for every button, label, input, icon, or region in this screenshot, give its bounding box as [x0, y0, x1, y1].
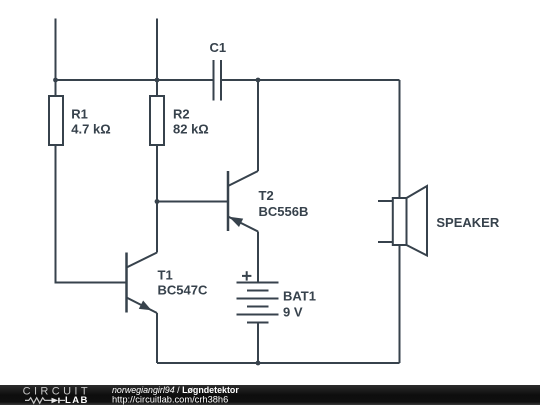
svg-text:T2: T2: [259, 188, 274, 203]
svg-text:http://circuitlab.com/crh38h6: http://circuitlab.com/crh38h6: [112, 395, 228, 405]
wire R2 top lead: [156, 80, 158, 97]
wire T1 emitter to bottom bus: [156, 313, 158, 363]
svg-text:R2: R2: [173, 107, 190, 122]
svg-text:norwegiangirl94 / Løgndetektor: norwegiangirl94 / Løgndetektor: [112, 385, 239, 395]
svg-text:C1: C1: [210, 40, 227, 55]
svg-text:SPEAKER: SPEAKER: [436, 215, 499, 230]
svg-text:BC556B: BC556B: [259, 204, 309, 219]
wire middle antenna stub: [156, 19, 158, 81]
wire battery minus to bottom bus: [257, 323, 259, 364]
svg-text:9 V: 9 V: [283, 305, 303, 320]
svg-text:4.7 kΩ: 4.7 kΩ: [71, 122, 110, 137]
node top bus / T2 collector junction: [256, 78, 261, 83]
speaker symbol: [378, 186, 427, 256]
transistor T2 (PNP BC556B): [228, 171, 258, 232]
wire T2 emitter to battery plus: [257, 232, 259, 283]
wire R2 bottom lead to T1 collector: [156, 145, 158, 253]
resistor R2: [150, 96, 164, 145]
battery plus sign: [242, 271, 251, 280]
resistor R1: [49, 96, 63, 145]
CircuitLab logo diode: [52, 398, 59, 404]
wire bottom bus: [157, 362, 400, 364]
wire top bus left of C1: [56, 79, 214, 81]
svg-text:BC547C: BC547C: [158, 283, 208, 298]
node R2 / T2 base junction: [155, 199, 160, 204]
wire left antenna stub: [55, 19, 57, 81]
svg-text:R1: R1: [71, 107, 88, 122]
wire speaker bottom branch: [399, 245, 401, 363]
wire R1 bottom lead to T1 base corner: [56, 145, 127, 283]
svg-text:BAT1: BAT1: [283, 288, 316, 303]
svg-text:82 kΩ: 82 kΩ: [173, 122, 209, 137]
wire R1 top lead: [55, 80, 57, 97]
transistor T1 (NPN BC547C): [127, 253, 158, 314]
wire T2 base from node: [157, 201, 227, 203]
capacitor C1: [214, 60, 222, 101]
wire speaker top branch: [399, 80, 401, 198]
footer bar: [0, 385, 540, 405]
svg-text:LAB: LAB: [65, 395, 89, 405]
wire T2 collector to top bus: [257, 80, 259, 171]
svg-text:T1: T1: [158, 268, 173, 283]
wire top bus right of C1: [221, 79, 400, 81]
CircuitLab logo resistor zigzag: [25, 398, 52, 404]
node battery / bottom bus junction: [256, 361, 261, 366]
battery BAT1: [237, 283, 279, 323]
node top bus / R1 junction: [53, 78, 58, 83]
node top bus / R2 junction: [155, 78, 160, 83]
